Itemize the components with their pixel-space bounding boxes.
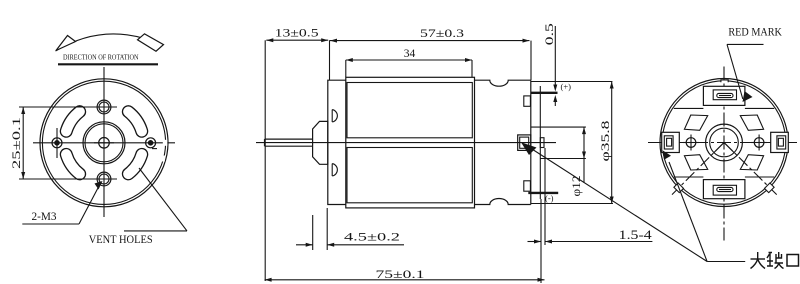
vent slot SW [66,154,79,174]
thick brushplate line bottom [528,192,558,194]
chord bottom [674,176,704,178]
svg-text:φ35.8: φ35.8 [598,121,612,162]
大缺口 text (drawn strokes) [751,252,799,269]
大缺口 label leaders [528,147,707,262]
center circle outer [706,124,743,161]
right side box [771,132,789,152]
underline thick [58,63,158,65]
central boss inner [85,124,123,162]
svg-text:φ12: φ12 [569,176,583,197]
rotation arrow arc [56,34,164,51]
central boss outer [83,122,125,164]
can rear section top edge with notch [475,80,531,86]
ext line cap top [531,81,612,83]
dimension 25±0.1 [19,106,92,108]
svg-text:RED MARK: RED MARK [728,25,782,39]
can rear section bottom edge with notch [475,199,531,205]
magnet top [347,83,472,138]
svg-text:57±0.3: 57±0.3 [420,26,464,40]
ext line shaft tip [264,40,266,281]
svg-text:4.5±0.2: 4.5±0.2 [344,230,400,244]
right hole [146,138,156,148]
outer circle [660,79,788,207]
rear bearing square [518,135,531,151]
magnet bottom [347,148,472,203]
svg-text:DIRECTION OF ROTATION: DIRECTION OF ROTATION [63,54,139,62]
D bump top [332,110,337,122]
rotation arrow left head [56,36,76,51]
diagonal to lower-left notch [672,143,724,195]
top M3 hole [97,100,111,114]
quad lower-left [684,155,707,170]
svg-text:1.5-4: 1.5-4 [619,228,653,242]
lower-left rim notch [674,183,684,193]
dim φ35.8 [611,82,613,204]
left side box [662,132,680,152]
vent slot NW [66,112,79,132]
svg-text:0.5: 0.5 [542,23,556,45]
vent slot NE [128,112,141,132]
ext line can right [530,41,532,80]
dim φ12 [583,127,585,183]
center circle inner [710,128,739,157]
top notch tab [721,80,728,83]
horizontal centerline [256,142,556,144]
inner rim circle [42,81,165,204]
缺 [767,253,773,267]
svg-text:2-M3: 2-M3 [32,209,57,223]
svg-text:25±0.1: 25±0.1 [9,117,23,169]
center hole crosshair [94,142,114,144]
left hole [52,138,62,148]
bottom M3 hole [97,172,111,186]
terminal tab bottom [524,181,531,191]
vent slot SE [128,154,141,174]
D bump bottom [332,164,337,176]
terminal tab top [524,96,531,106]
outer circle [40,79,168,207]
bearing Y marks [714,143,724,153]
quad lower-right [740,155,763,170]
left screw [686,138,696,148]
quad upper-left [684,115,707,130]
ext line can left [329,40,331,80]
vertical centerline dashed [723,66,725,241]
svg-text:34: 34 [404,46,416,60]
cap rear line [539,86,541,199]
svg-text:(-): (-) [545,193,554,203]
front bushing [313,121,328,164]
dim φ12 ext lines [531,126,586,128]
right screw [754,138,764,148]
diagonal to lower-right notch [724,143,777,195]
can front section [328,80,346,204]
inner rim circle [662,81,785,204]
口 [787,255,799,267]
大 [751,258,766,260]
ext line can bottom [531,203,613,205]
horizontal centerline dashed [645,142,797,144]
cap rear boss [540,138,544,148]
horizontal centerline [33,142,175,144]
quad upper-right [740,115,763,130]
thick brushplate line top [531,92,558,94]
lower-right rim notch [764,183,774,193]
vertical centerline [103,67,105,217]
bottom terminal [703,180,745,199]
svg-text:(+): (+) [561,82,572,92]
can bulge section [346,77,475,208]
svg-text:75±0.1: 75±0.1 [376,267,425,281]
top terminal [703,86,745,105]
end cap face line [530,80,532,204]
shaft [265,138,314,140]
chord top [674,107,704,109]
center hole [99,138,110,149]
rotation arrow right tail [138,34,164,51]
svg-text:VENT HOLES: VENT HOLES [89,232,153,246]
svg-text:13±0.5: 13±0.5 [275,26,319,40]
